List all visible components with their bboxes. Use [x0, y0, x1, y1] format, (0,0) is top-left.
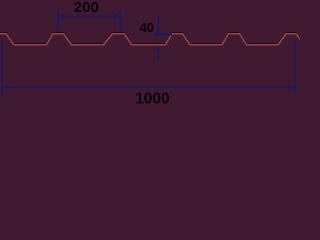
dim 200: right arrowhead [114, 14, 120, 19]
dim 200: right extension line [119, 10, 121, 32]
svg-text:200: 200 [74, 0, 99, 16]
dim 40: up arrowhead [156, 46, 161, 51]
dim 1000: right arrowhead [288, 85, 294, 90]
dim 200: left extension line [57, 10, 59, 32]
dim 200: left arrowhead [58, 14, 64, 19]
dim 1000: left arrowhead [3, 85, 9, 90]
dim 1000: left extension line [1, 40, 3, 97]
dim 40: horizontal reference line at rib top level [154, 33, 172, 35]
dim 1000: dimension line [3, 86, 294, 88]
dim 1000: right extension line [294, 41, 296, 95]
svg-text:40: 40 [140, 20, 154, 35]
dim 40: upper leader line [157, 15, 159, 30]
sheet profile red line [0, 34, 303, 45]
sheet profile top dark edge [0, 33, 303, 44]
dim 200: dimension line [58, 15, 120, 17]
dim 40: lower leader line [157, 50, 159, 61]
svg-text:1000: 1000 [135, 90, 169, 106]
dim 40: down arrowhead [156, 29, 161, 34]
